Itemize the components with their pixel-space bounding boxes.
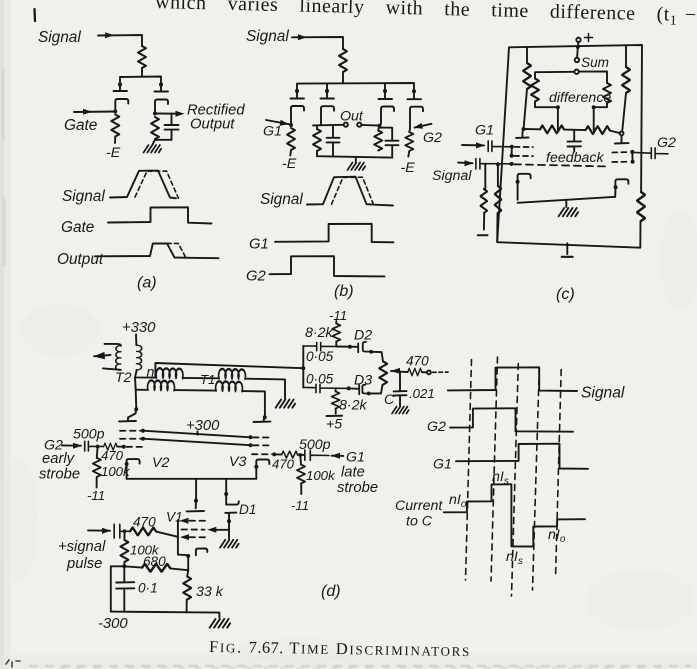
resistor 470 left strobe: [104, 443, 118, 450]
node grid3 left: [510, 162, 514, 166]
wire to D2: [336, 346, 358, 348]
svg-text:D1: D1: [239, 502, 256, 517]
svg-text:Sum: Sum: [581, 55, 609, 70]
wire V1 left vertical: [178, 520, 188, 555]
grid dashes left row1: [515, 146, 534, 148]
wire Signal arrow (c): [458, 162, 473, 165]
svg-text:T2: T2: [115, 370, 132, 386]
svg-text:100k: 100k: [101, 464, 131, 479]
terminal difference top: [574, 70, 578, 74]
grid dashes left row2: [514, 155, 533, 157]
wire between h-resistors: [564, 129, 586, 132]
grid dashes V3 row3: [252, 453, 272, 455]
wire between secondary coils: [175, 389, 217, 392]
node 100k left junction: [96, 445, 100, 449]
wire top rail (b): [297, 83, 414, 91]
tube V1 plate: [187, 501, 205, 512]
wire cross coupling line 2: [143, 439, 251, 446]
node V2 row3: [122, 445, 126, 449]
resistor G1 bias: [287, 128, 295, 150]
ground (c): [559, 208, 578, 216]
svg-text:pulse: pulse: [66, 556, 102, 572]
svg-text:V1: V1: [166, 510, 183, 525]
svg-text:470: 470: [101, 448, 124, 463]
svg-text:8·2k: 8·2k: [305, 325, 334, 341]
wire D1 to ground: [228, 530, 230, 539]
wire cathode3 foot: [379, 118, 381, 126]
resistor 680: [124, 566, 142, 567]
node cathode right: [614, 185, 618, 189]
svg-text:-E: -E: [401, 160, 416, 176]
svg-text:G2: G2: [246, 269, 267, 285]
transformer T1 secondary coil B: [216, 381, 243, 391]
terminal Sum: [575, 58, 579, 62]
node grid1 left: [510, 145, 514, 149]
grid dashes V3 row2: [253, 444, 271, 446]
wire resistor bottom: [154, 138, 156, 141]
svg-text:-E: -E: [106, 145, 121, 161]
wire junction down to C: [399, 372, 401, 391]
cathode V3: [256, 460, 269, 472]
waveform G1 (right): [456, 444, 588, 469]
wire to Sum terminal: [576, 47, 579, 58]
capacitor signal input: [114, 524, 130, 538]
svg-text:feedback: feedback: [546, 150, 604, 166]
terminal Out left: [344, 123, 348, 127]
resistor center (d): [379, 362, 387, 385]
capacitor C .021: [394, 391, 407, 406]
wire outer box (c): [497, 45, 642, 248]
capacitor 500p left: [85, 441, 104, 451]
waveform output solid (a): [95, 243, 219, 258]
dashed timing line 4: [533, 368, 540, 591]
resistor 8.2k upper: [335, 321, 337, 324]
dashed timing line 2: [491, 357, 498, 581]
transformer T2 secondary winding: [136, 345, 141, 370]
node cathode V3: [254, 465, 258, 469]
svg-text:-11: -11: [329, 308, 347, 323]
faint cut-off text row at bottom: [30, 665, 690, 668]
wire cathode1 to node: [290, 118, 292, 126]
capacitor 0.05 lower: [303, 384, 348, 392]
node dots on branches: [295, 89, 299, 93]
resistor signal load (b): [339, 49, 347, 72]
paper shading left edge: [0, 0, 10, 669]
waveform signal trapezoid dashed (a): [135, 171, 179, 198]
svg-text:strobe: strobe: [39, 467, 80, 483]
node V3 row2: [249, 443, 253, 447]
node top junction: [576, 45, 580, 49]
wire stub to V1 plate: [195, 479, 197, 501]
resistor 470 input: [130, 527, 156, 535]
paper mottle blobs: [2, 210, 697, 662]
diode V-left cathode: [115, 99, 128, 111]
mark top-left tick: [33, 9, 36, 21]
wire +330 lead: [135, 335, 137, 346]
svg-text:0·05: 0·05: [306, 349, 334, 364]
svg-text:T1: T1: [200, 372, 215, 387]
svg-text:Output: Output: [57, 251, 104, 268]
wire T2 primary leads with arrow: [94, 344, 121, 370]
wire left vertical 0.05 branch: [302, 346, 304, 388]
node 100k input junction: [123, 529, 127, 533]
svg-text:470: 470: [406, 354, 429, 369]
wire D1 to V1 grid with arrow: [213, 529, 229, 531]
wire D2 to resistor: [371, 352, 383, 362]
node grid1 right: [630, 150, 634, 154]
wire cathode V3 foot: [255, 471, 257, 479]
wire Rectified Output with arrow: [155, 113, 180, 115]
svg-text:to C: to C: [406, 514, 433, 530]
terminal circle 470: [427, 371, 431, 375]
svg-text:470: 470: [272, 457, 295, 472]
cathode V1: [196, 549, 207, 556]
wire flipflop bottom rail: [127, 478, 257, 480]
terminal minus bottom (c): [562, 256, 573, 258]
waveform G2 pulse (b): [270, 256, 385, 276]
svg-text:+signal: +signal: [58, 539, 106, 555]
wire cathode left drop: [517, 185, 519, 200]
wire cathode to output node: [154, 111, 156, 114]
smudge left margin 1: [2, 70, 5, 140]
wire Signal input with arrow: [98, 35, 142, 46]
node V2 plate lead: [134, 407, 138, 411]
svg-text:early: early: [42, 451, 76, 467]
diode D1 bracket: [226, 494, 239, 505]
cathode left (c): [518, 174, 531, 186]
diode 1 cathode: [291, 106, 304, 118]
svg-text:Out: Out: [340, 109, 364, 125]
waveform output dashed (a): [167, 243, 186, 258]
resistor horizontal left (c): [540, 125, 564, 133]
svg-text:100k: 100k: [306, 468, 336, 483]
transformer T1 secondary coil A: [148, 380, 175, 390]
grid V1 row3 arrow: [180, 534, 189, 540]
svg-text:G1: G1: [433, 457, 452, 473]
capacitor branch3: [379, 128, 398, 158]
wire n down to secondary: [135, 377, 147, 389]
node diff left: [556, 105, 560, 109]
terminal minus left (c): [478, 234, 488, 236]
wire cathode4 foot: [409, 118, 411, 128]
svg-text:G1: G1: [475, 123, 494, 139]
diode 4 cathode: [410, 107, 423, 119]
grid dashes shared row: [514, 164, 606, 166]
mark bottom-left fragment: [6, 660, 20, 667]
wire + to box: [577, 42, 580, 47]
wire to rail: [342, 72, 344, 83]
ground C (d): [392, 407, 409, 414]
svg-text:Signal: Signal: [246, 28, 289, 45]
diode 3 plate: [379, 91, 393, 99]
grid dashes V2 row1: [120, 430, 141, 432]
ground bottom (d): [210, 619, 230, 628]
svg-text:G2: G2: [657, 135, 676, 151]
svg-text:Output: Output: [190, 117, 235, 133]
wire signal drop to divider: [484, 164, 486, 189]
node D1 mid: [227, 519, 231, 523]
resistor 100k left strobe: [96, 447, 99, 458]
diode V-right plate: [155, 85, 169, 92]
resistor difference right: [603, 83, 611, 103]
wire cathode rail (c): [518, 197, 616, 203]
svg-text:8·2k: 8·2k: [339, 398, 368, 414]
cathode V2: [127, 459, 140, 471]
wire stub to D1: [225, 479, 227, 494]
node V3 plate lead: [263, 415, 267, 419]
node V3 row1: [249, 435, 253, 439]
node dot left branch: [118, 83, 122, 87]
wire ground stub (c): [565, 200, 567, 207]
svg-text:G2: G2: [423, 130, 442, 146]
grid dashes right row2: [612, 161, 630, 163]
wire to left diff node: [535, 102, 558, 108]
wire bottom minus stub (c): [566, 243, 568, 254]
wire between coils: [183, 377, 219, 379]
svg-text:500p: 500p: [299, 437, 331, 453]
wire grid connector left: [511, 147, 513, 156]
diode V-left plate: [114, 85, 128, 92]
diode V-right cathode: [155, 100, 168, 112]
waveform G1 pulse (b): [275, 224, 394, 243]
ground (b): [348, 163, 366, 171]
node plate right circle: [620, 132, 624, 136]
wire to minus terminal: [483, 213, 485, 230]
wire diff node drops: [558, 107, 594, 130]
waveform signal solid (b): [307, 177, 393, 206]
wire G2 arrow: [62, 444, 81, 446]
resistor 470 right strobe: [282, 451, 298, 458]
wire cathode2 to node bar: [313, 118, 344, 126]
cathode right (c): [615, 179, 628, 191]
wire to -E: [114, 137, 116, 144]
capacitor output filter (a): [165, 114, 179, 140]
ground (a): [144, 145, 162, 153]
tube V3 plate: [254, 417, 271, 422]
wire to -E left (b): [289, 150, 292, 156]
wire left rail: [111, 566, 125, 611]
dashed timing line 3: [512, 364, 519, 597]
wire G1 input with arrow (b): [266, 120, 291, 125]
svg-text:-11: -11: [87, 488, 105, 503]
svg-text:D2: D2: [354, 328, 372, 344]
svg-text:G1: G1: [263, 124, 282, 140]
svg-text:difference: difference: [549, 90, 611, 106]
wire secondary to V3 plate: [242, 391, 265, 417]
diode D2: [358, 342, 370, 353]
wire input chain: [88, 529, 110, 531]
wire G2 input arrow (b): [415, 124, 432, 128]
node output junction: [153, 112, 157, 116]
wire plate node to h-resistors: [524, 129, 620, 133]
node plate left: [522, 127, 526, 131]
diode D1 plate bar: [225, 513, 236, 530]
node V3 row3: [272, 452, 276, 456]
wire cathode to 33k junction: [187, 556, 189, 570]
wire output bottom bar: [153, 140, 172, 145]
grid dashes V2 row3: [127, 446, 145, 448]
wire G1 arrow right: [332, 455, 344, 457]
capacitor feedback (c): [568, 130, 582, 152]
svg-text:-300: -300: [98, 616, 128, 632]
node T1 line junction: [301, 366, 305, 370]
waveform signal trapezoid solid (a): [110, 171, 176, 199]
tube V2 plate: [119, 409, 136, 421]
resistor branch2: [313, 129, 321, 151]
resistor divider 2 (c): [497, 164, 499, 186]
wire to right diff node: [594, 103, 607, 107]
terminal +5 bar: [327, 415, 343, 417]
svg-text:(a): (a): [137, 275, 157, 292]
node cathode left: [516, 180, 520, 184]
node gate junction: [113, 110, 117, 114]
svg-text:-E: -E: [282, 156, 297, 172]
svg-text:Current: Current: [395, 498, 443, 514]
svg-text:Signal: Signal: [62, 188, 105, 205]
diode 1 plate: [291, 91, 305, 99]
svg-text:0·05: 0·05: [306, 372, 334, 387]
grid dashes right row1: [612, 151, 630, 154]
wire cathode V2 foot: [126, 471, 128, 479]
capacitor G1 coupling (c): [488, 141, 512, 152]
ground T1 (d): [276, 400, 295, 408]
waveform signal dashed (b): [332, 177, 374, 204]
paper shading bottom edge: [0, 655, 697, 669]
svg-text:Signal: Signal: [38, 29, 81, 46]
node V1 cathode junction: [186, 554, 190, 558]
resistor 100k right strobe: [299, 455, 302, 465]
svg-text:C: C: [384, 392, 395, 408]
svg-text:late: late: [341, 465, 365, 481]
svg-text:500p: 500p: [73, 427, 105, 443]
waveform G2 (right): [450, 408, 573, 431]
waveform gate pulse (a): [108, 207, 212, 223]
diode D3: [349, 385, 369, 395]
diode 3 cathode: [381, 107, 394, 119]
svg-text:Signal: Signal: [260, 191, 303, 208]
wire G1 arrow (c): [462, 144, 484, 146]
terminal + (c): [576, 38, 580, 42]
resistor plate-load right (c): [625, 45, 627, 67]
node D1 lead: [224, 492, 228, 496]
resistor signal left (c): [480, 189, 487, 213]
svg-text:33 k: 33 k: [196, 584, 224, 600]
wire top coupling line: [155, 363, 303, 368]
svg-text:strobe: strobe: [337, 480, 378, 496]
wire to -E right (b): [408, 151, 409, 157]
grid dashes V2 row2: [120, 438, 141, 440]
svg-text:G1: G1: [249, 237, 269, 253]
diode 2 cathode: [321, 106, 334, 118]
capacitor branch2: [327, 125, 340, 156]
wire T bar: [120, 77, 161, 85]
wire Gate input with arrow: [74, 111, 115, 114]
resistor signal load (a): [138, 46, 146, 68]
node 100k right junction: [298, 453, 302, 457]
terminal Out right: [357, 123, 361, 127]
tube plate bar left (c): [516, 129, 529, 138]
wire resistor to T junction: [141, 68, 143, 77]
caption: Fig. 7.67. Time Discriminators: [209, 637, 471, 660]
node G1 junction: [289, 123, 293, 127]
svg-text:(c): (c): [556, 286, 575, 303]
capacitor Signal coupling (c): [476, 159, 512, 170]
node dot right branch: [159, 83, 163, 87]
node D2 junction: [348, 345, 352, 349]
diode 2 plate: [321, 91, 335, 99]
tube plate bar right (c): [615, 135, 629, 143]
resistor branch3: [374, 131, 382, 151]
resistor gate bias (a): [111, 115, 119, 137]
transformer T1 primary coil A: [156, 368, 183, 378]
svg-text:+300: +300: [186, 418, 220, 434]
node grid2 right: [631, 160, 635, 164]
grid dashes V1 row3: [190, 536, 207, 538]
svg-text:G2: G2: [427, 419, 446, 435]
svg-text:0·1: 0·1: [138, 581, 158, 596]
smudge left margin 2: [3, 200, 6, 265]
svg-text:(d): (d): [321, 583, 341, 600]
node V2 row1: [141, 429, 145, 433]
wire cathode to gate node: [114, 111, 116, 112]
transformer T2 primary winding: [116, 346, 121, 371]
svg-text:+330: +330: [122, 320, 156, 336]
transformer T1 primary coil B: [219, 369, 246, 379]
resistor 100k input: [123, 531, 125, 540]
wire Signal input (b): [292, 37, 343, 49]
node second divider top: [496, 162, 500, 166]
diode 4 plate: [408, 91, 422, 99]
svg-text:V3: V3: [229, 454, 246, 470]
grid V1 row1 arrow: [180, 518, 189, 524]
resistor plate-load left (c): [526, 47, 528, 63]
waveform Current to C: [444, 484, 585, 546]
node grid2 left: [510, 154, 514, 158]
wire n to top line corner: [135, 363, 155, 378]
wire out right to branch3: [362, 124, 380, 127]
grid dashes V1 row2: [182, 529, 205, 531]
node branch3: [377, 124, 381, 128]
svg-text:Gate: Gate: [61, 219, 94, 236]
resistor 33k: [187, 570, 188, 576]
svg-text:V2: V2: [152, 455, 169, 471]
node 680 junction: [122, 564, 126, 568]
svg-text:(b): (b): [334, 283, 354, 300]
capacitor 0.1: [116, 566, 134, 611]
capacitor 500p right: [305, 450, 329, 460]
waveform Signal (right): [448, 367, 577, 391]
wire n down to V2 plate: [135, 390, 138, 410]
node V2 row2: [141, 437, 145, 441]
grid dashes V3 row1: [253, 436, 271, 438]
svg-text:+5: +5: [326, 417, 342, 433]
dashed timing line 1: [466, 360, 472, 581]
svg-text:Signal: Signal: [581, 385, 625, 402]
wire arrow into resistor: [391, 370, 400, 373]
resistor output load (a): [151, 117, 159, 139]
wire cathode right drop: [614, 191, 616, 197]
wire dashed stub: [433, 371, 449, 373]
resistor right edge (c): [637, 192, 645, 221]
wire bottom rail (d): [111, 612, 220, 618]
svg-text:G1: G1: [346, 450, 365, 466]
svg-text:470: 470: [133, 515, 156, 530]
grid dashes V1 row1: [190, 520, 208, 522]
wire coil B to ground drop: [245, 379, 285, 399]
top cropped body text: [155, 0, 697, 29]
ground D1: [220, 540, 239, 548]
resistor horizontal right (c): [586, 126, 610, 134]
